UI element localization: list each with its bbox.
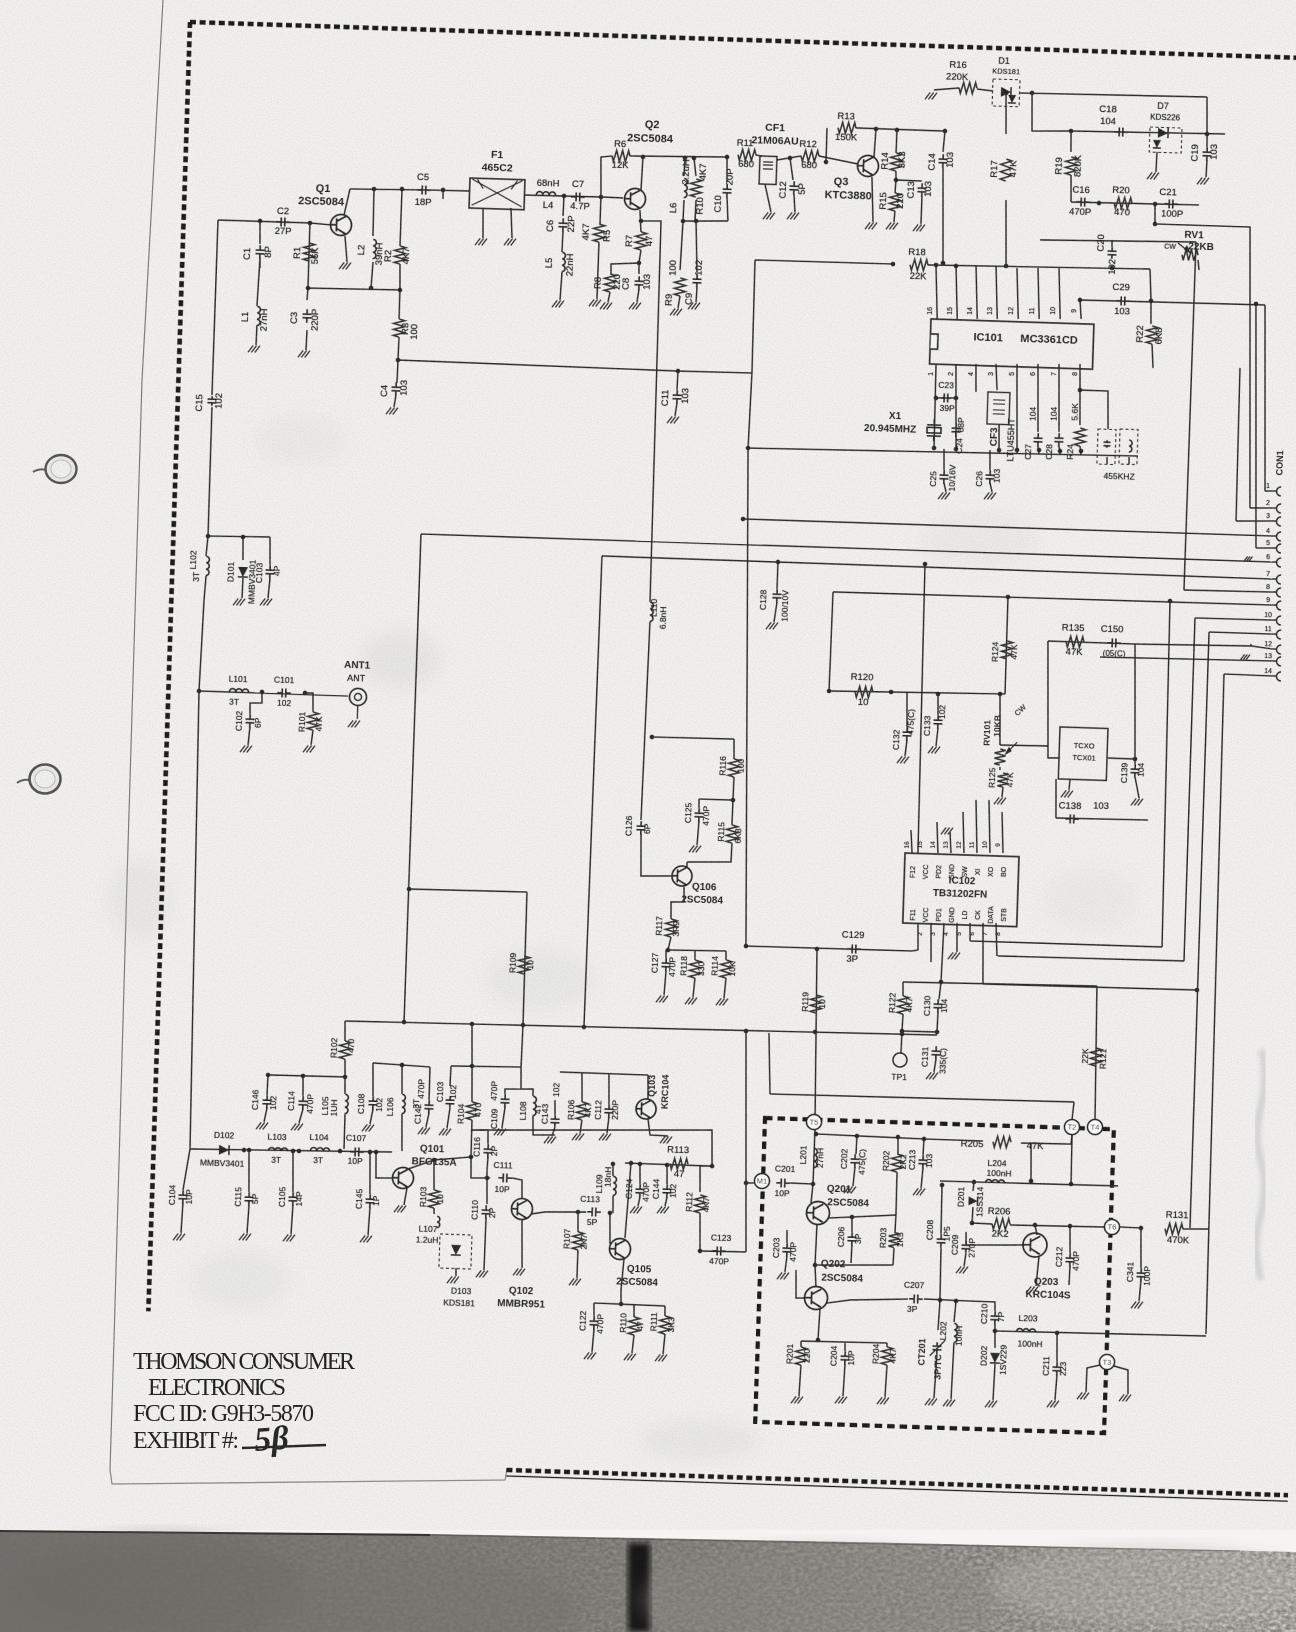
wire C10 down [726, 197, 728, 221]
inductor L110 [650, 602, 654, 621]
connector CON1 pin 9 [1276, 601, 1281, 610]
resistor R8 [604, 274, 616, 292]
connector CON1 pin 10 [1276, 616, 1281, 625]
wire C25 branch [943, 449, 944, 470]
wire pin10 to IC102 STB [998, 955, 1184, 962]
capacitor C341 [1136, 1268, 1145, 1282]
connector CON1 pin 13 [1276, 657, 1281, 666]
wire IC102 pin13 gnd [949, 832, 951, 853]
wire R113 row [625, 1163, 712, 1166]
ground R15 [886, 222, 898, 229]
wire C16/R20/C21 row [1071, 201, 1199, 206]
wire C122 [593, 1303, 596, 1316]
inductor L106 [402, 1094, 406, 1113]
wire C208 bottom [939, 1248, 941, 1299]
wire L102 coil column [206, 536, 208, 556]
dashed box L107/D103 [439, 1234, 472, 1269]
capacitor C6 [558, 218, 567, 232]
wire R131 row [1120, 1227, 1141, 1228]
transistor Q1 [330, 214, 352, 236]
resistor R5 [593, 224, 605, 242]
wire IC101 pin 16 riser [934, 266, 939, 319]
ground R125 [994, 797, 1006, 804]
transistor Q106 [672, 866, 693, 887]
capacitor C101 [277, 688, 291, 697]
page bottom edge line [110, 1469, 507, 1484]
resistor R106 [576, 1102, 588, 1120]
node T3 [1099, 1354, 1114, 1369]
wire Q102 out [531, 1210, 586, 1216]
resistor R112 [694, 1195, 706, 1213]
wire Q3 emitter [871, 177, 875, 222]
wire down to R9 [680, 221, 683, 270]
node base Q1 [308, 221, 313, 226]
wire C212 bottom [1069, 1266, 1070, 1285]
wire R22 branch [1150, 301, 1151, 324]
wire R109 drop [523, 892, 528, 1025]
wire main bus 448 [748, 443, 1138, 460]
resistor R121 [1090, 1048, 1102, 1066]
ground C26 [984, 492, 996, 499]
ground C105 [283, 1234, 295, 1241]
wire bias rail Q1 [308, 287, 402, 291]
wire CF1 to R12 [777, 155, 801, 161]
IC101 notch [931, 334, 938, 349]
wire C146 [267, 1075, 268, 1095]
wire D102 row [190, 1145, 392, 1155]
wire R125 gnd [1002, 787, 1003, 797]
wire bus pin10 [1195, 618, 1272, 621]
wire IC101 pin 9 riser [1079, 300, 1081, 319]
ground C213 [913, 1188, 925, 1195]
wire Q2 emitter [639, 210, 641, 232]
inductor L104 [310, 1147, 329, 1151]
capacitor C27 [1033, 433, 1042, 447]
capacitor C15 [207, 396, 216, 406]
connector CON1 pin 8 [1276, 588, 1281, 597]
inductor L102 [206, 556, 210, 575]
wire R18 rail corner [1149, 269, 1152, 301]
wire C131 gnd [934, 1059, 936, 1072]
ground Q101 [394, 1205, 406, 1212]
wire Q202 collector [814, 1265, 816, 1287]
wire R116 top [733, 739, 734, 759]
ground C143 [544, 1136, 556, 1143]
resistor R110 [628, 1317, 640, 1335]
ground L1 [248, 345, 260, 352]
filter CF3 [987, 392, 1010, 425]
wire C124 drop [639, 1164, 640, 1184]
wire Q1 base [310, 223, 332, 225]
node T4 [1087, 1119, 1102, 1134]
wire IC102 VCC riser [916, 564, 928, 853]
wire T3 node legs [1086, 1365, 1100, 1393]
wire L109 column [612, 1208, 614, 1213]
connector CON1 pin 1 [1276, 487, 1281, 496]
capacitor C145 [365, 1194, 374, 1208]
wire IC102 pin6 drop [969, 923, 970, 941]
connector CON1 pin 11 [1276, 630, 1281, 639]
wire D202 gnd [993, 1364, 995, 1400]
wire T2 riser [1070, 1135, 1072, 1184]
wire C6-L5 [562, 231, 563, 252]
faint page smudges [110, 415, 1135, 1460]
resistor R16 [959, 82, 977, 94]
ground R16 [925, 92, 937, 99]
wire R102 column [344, 1021, 345, 1041]
transistor Q202 [804, 1286, 828, 1310]
ground D103 [447, 1276, 459, 1283]
wire R106 [581, 1073, 583, 1102]
wire C110 branch [486, 1170, 488, 1204]
wire C19 branch [1206, 140, 1208, 147]
wire C4 branch [397, 360, 398, 383]
connector CON1 pin 14 [1276, 672, 1281, 681]
wire IC101 pin4 [975, 364, 977, 392]
ground L202 [943, 1399, 955, 1406]
wire IC102 pin2 drop [917, 923, 919, 950]
capacitor C202 [850, 1154, 859, 1168]
capacitor C10 [722, 184, 731, 198]
wire RV1 tail [1198, 260, 1200, 270]
wire C5 to F1 [430, 190, 470, 192]
wire L108 [521, 1089, 533, 1096]
wire R112 bottom [699, 1213, 701, 1251]
wire pin1 stub [1265, 490, 1272, 493]
ground C211 [1047, 1400, 1059, 1407]
wire pin12 riser [1250, 644, 1252, 646]
wire x1170 drop [1159, 601, 1173, 947]
wire pin2 stub [1250, 507, 1272, 508]
capacitor C9 [692, 274, 701, 288]
IC IC102 TB31202FN [903, 853, 1019, 927]
wire pin6 left vertical [404, 534, 421, 1022]
diode D202 [990, 1353, 1000, 1363]
ground C124 [630, 1206, 642, 1213]
wire Q1 collector [344, 189, 350, 215]
wire R1 branch [308, 223, 310, 288]
capacitor C18 [1114, 127, 1128, 136]
ground R110 [624, 1353, 636, 1360]
ground C128 [766, 622, 778, 629]
wire Q203 emitter [1036, 1256, 1039, 1286]
discriminator internals [1103, 440, 1110, 448]
wire R205 to L204 drop [1030, 1143, 1032, 1181]
wire Q202 output row [827, 1296, 908, 1305]
wire C6 branch [562, 196, 565, 216]
wire R122/C130 bottom jog [902, 1031, 937, 1032]
inductor L103 [268, 1148, 287, 1152]
diode D1 dashed box [992, 79, 1020, 107]
wire C132 branch [906, 693, 908, 727]
capacitor C25 [939, 470, 948, 484]
resistor R125 [997, 773, 1008, 787]
wire Q2 collector [641, 157, 643, 190]
capacitor C29 [1116, 296, 1130, 305]
wire R135 left drop [1045, 641, 1052, 746]
wire T3 right leg [1113, 1366, 1129, 1394]
wire C21 node down [1154, 204, 1155, 224]
ground R118 [685, 997, 697, 1004]
wire left vertical to L102 [208, 407, 212, 536]
wire D1 rail corner down [1206, 97, 1209, 140]
wire C211 column [1056, 1333, 1058, 1362]
capacitor C3 [302, 309, 311, 323]
ground C9 [688, 302, 700, 309]
resistor R2 [394, 246, 406, 264]
wire IC101 pin 12 riser [1015, 268, 1020, 319]
ground C108 [362, 1124, 374, 1131]
inductor L203 [1016, 1328, 1035, 1332]
capacitor C116 [483, 1144, 492, 1158]
transistor Q105 [609, 1238, 631, 1260]
wire pin3 stub [1236, 520, 1272, 522]
transistor Q203 [1023, 1233, 1048, 1258]
wire C139 branch [1134, 759, 1136, 764]
wire R112 column [699, 1166, 712, 1193]
wire C8 [638, 263, 641, 274]
wire R122 [902, 982, 905, 996]
ground R111 [655, 1354, 667, 1361]
ground C133 [928, 746, 940, 753]
wire R17 column [1005, 93, 1008, 134]
wire C103b [450, 1066, 451, 1086]
capacitor C208 [936, 1234, 945, 1248]
wire Q202 emitter [818, 1309, 820, 1340]
capacitor C204 [840, 1351, 849, 1365]
potentiometer RV101 [998, 694, 1001, 745]
antenna ANT1 [349, 688, 367, 719]
inductor L101 [229, 689, 248, 693]
wire L105 [344, 1077, 345, 1094]
wire D201 column [972, 1182, 975, 1191]
wire pin9 corner R120 [829, 592, 833, 691]
resistor R104 [466, 1102, 478, 1120]
TX section bold dashed box [755, 1118, 1114, 1433]
wire bus pin8 [1184, 589, 1272, 593]
capacitor C138 row [1056, 817, 1148, 821]
resistor R9 [674, 278, 686, 296]
capacitor C111 [498, 1173, 512, 1182]
capacitor C203 [782, 1243, 791, 1257]
wire link to T2 circle [1072, 1102, 1074, 1120]
wire CF1 legs [764, 184, 772, 212]
wire R202 bottom [896, 1172, 898, 1215]
wire TCXO gnd leg [1069, 779, 1070, 790]
capacitor C142 [424, 1100, 433, 1114]
wire IC102 pin14 riser [936, 822, 939, 853]
diode D201 [968, 1196, 977, 1205]
capacitor C213 [918, 1155, 927, 1169]
resistor R1 [303, 243, 315, 261]
capacitor C209 [961, 1241, 970, 1253]
transistor Q103 [636, 1099, 657, 1120]
wire R115 [732, 800, 733, 825]
connector CON1 pin 6 [1276, 558, 1281, 567]
ground C146 [256, 1122, 268, 1129]
ground C127 [656, 995, 668, 1002]
ground R106 [572, 1133, 584, 1140]
wire discr top [1079, 390, 1110, 429]
wire C18/D7 row [1071, 129, 1225, 136]
transistor Q102 [511, 1198, 533, 1220]
wire D201 to R206 [971, 1207, 974, 1223]
wire pin8 riser up [1184, 242, 1196, 590]
wire IC102 pin3 drop [930, 923, 933, 962]
ground R201 [791, 1396, 803, 1403]
wire C129 to pin2 [912, 950, 918, 951]
resistor R135 [1066, 636, 1084, 648]
ground C104 [173, 1233, 185, 1240]
node T2 [1064, 1119, 1079, 1134]
wire R119 column [811, 949, 820, 1122]
wire C116 bottom [487, 1157, 488, 1170]
wire C103a [269, 537, 271, 565]
ground C13 [913, 224, 925, 231]
capacitor C146 [262, 1095, 271, 1109]
resistor R114 [720, 960, 732, 978]
ground C25 [938, 492, 950, 499]
wire R120 row [829, 688, 1005, 696]
capacitor C12 [789, 181, 798, 195]
resistor R103 [428, 1190, 440, 1208]
wire R19 column [1070, 131, 1071, 152]
wire R24 drop [1078, 364, 1082, 425]
capacitor C16 [1076, 197, 1090, 206]
ground C11 [667, 416, 679, 423]
wire R114 [725, 951, 728, 960]
capacitor C19 [1202, 147, 1211, 161]
wire C18 row [1031, 93, 1072, 132]
wire R2 [400, 189, 402, 246]
capacitor C133 [933, 715, 942, 729]
exhibit underline [242, 1445, 326, 1448]
wire R103 drop [433, 1160, 435, 1190]
capacitor C11 [672, 390, 681, 404]
connector CON1 pin 7 [1276, 575, 1281, 584]
wire R16 to D1 [977, 89, 993, 91]
wire C341 gnd [1139, 1281, 1141, 1301]
ground C103 [439, 1128, 451, 1135]
wire emitter node right [629, 220, 663, 602]
wire C29 row [1080, 299, 1265, 306]
resistor R12 [801, 150, 819, 162]
wire C11 branch [677, 371, 678, 390]
wire R135 row [1048, 641, 1135, 644]
wire R113 node riser [470, 1122, 713, 1166]
wire C9 [694, 221, 698, 272]
resistor R122 [897, 996, 909, 1014]
wire Q201 base feed [811, 1184, 813, 1203]
resistor R14 [890, 153, 902, 171]
capacitor C102 [245, 714, 254, 728]
resistor R206 [992, 1218, 1010, 1230]
potentiometer RV1 [1182, 249, 1198, 261]
wire bus pin11 [1209, 632, 1272, 634]
wire L201 column [813, 1129, 815, 1184]
capacitor C123 [712, 1246, 726, 1255]
wire L2 [372, 189, 374, 236]
resistor R204 [881, 1347, 893, 1365]
resistor R109 [518, 956, 530, 974]
wire R5 branch [599, 197, 602, 224]
capacitor C24 [951, 423, 960, 437]
ground tick pin6 [1244, 556, 1252, 561]
capacitor C212 [1065, 1253, 1074, 1267]
wire C209 column [965, 1232, 968, 1245]
ground D202 [985, 1400, 997, 1407]
ground IC102 pin13 [941, 827, 953, 834]
wire C208 column [940, 1185, 942, 1234]
capacitor C130 [933, 999, 942, 1013]
wire C3 branch [306, 288, 309, 300]
wire L108 bottom [532, 1116, 555, 1136]
connector CON1 pin 12 [1276, 645, 1281, 654]
wire Q105 collector [625, 1163, 631, 1238]
capacitor C103 [265, 565, 274, 579]
connector CON1 pin 4 [1276, 532, 1281, 541]
wire C28 drop [1057, 364, 1061, 432]
wire D101 [242, 537, 243, 560]
inductor L105 [345, 1094, 349, 1113]
wire L1 branch [257, 258, 260, 306]
wire R124 branch [1005, 597, 1008, 694]
wire emitter rail Q202 [801, 1340, 887, 1344]
ground C12 [787, 212, 799, 219]
resistor R10 [690, 179, 702, 197]
wire R135 row to pin12 [1135, 642, 1251, 648]
wire R111 [664, 1306, 667, 1316]
ground TCXO [1061, 790, 1073, 797]
resistor R22 [1146, 326, 1158, 344]
test point TP1 [893, 1053, 907, 1067]
capacitor C1 [255, 245, 264, 259]
wire C111 to Q102 base [511, 1178, 522, 1198]
capacitor C150 [1107, 638, 1121, 647]
ground F1 b [504, 238, 516, 245]
ground Q102 [513, 1268, 525, 1275]
ground C114 [291, 1123, 303, 1130]
capacitor C112 [604, 1104, 613, 1118]
wire C123 row [700, 1251, 746, 1253]
ground C112 [599, 1133, 611, 1140]
wire R110 [633, 1305, 636, 1317]
wire bus pin9 [833, 591, 1272, 606]
wire R206 row [972, 1223, 992, 1224]
wire C211 gnd [1055, 1375, 1057, 1400]
capacitor C26 [985, 470, 994, 484]
capacitor C23 row [936, 397, 956, 398]
wire mid link row [770, 1092, 1074, 1104]
capacitor C122 [589, 1316, 598, 1330]
wire Q101 collector [408, 1155, 471, 1171]
resistor R118 [689, 960, 701, 978]
wire L102 junction [206, 534, 211, 539]
wire Q203 collector [1035, 1225, 1038, 1235]
resistor R6 [612, 150, 630, 162]
wire IC101 pin1 to crystal [933, 364, 936, 448]
wire D7 gnd [1156, 152, 1157, 172]
wire C125 row [699, 799, 733, 800]
wire Q3 collector [874, 129, 876, 157]
ground C202 [844, 1186, 856, 1193]
dark streak in noise band [628, 1543, 650, 1632]
wire rail2 C108/L106/C142 [373, 1063, 430, 1067]
capacitor C201 [776, 1178, 790, 1187]
wire Q106 collector [686, 862, 688, 867]
transistor Q3 [857, 155, 879, 177]
wire RV101 wiper [999, 767, 1001, 770]
